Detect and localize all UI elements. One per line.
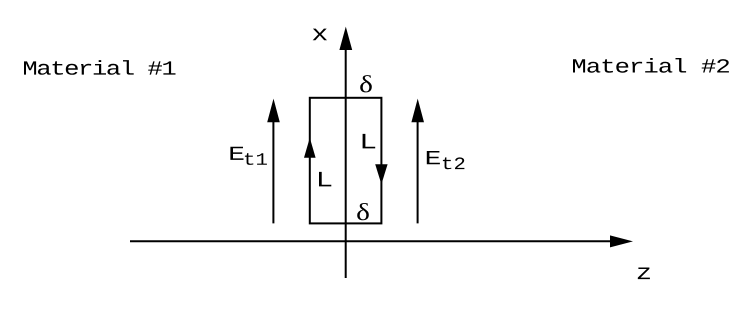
axis label z bbox=[638, 268, 650, 280]
z-axis line bbox=[130, 240, 614, 242]
label delta (bottom of loop) bbox=[357, 203, 369, 220]
field vector E_t1 arrowhead bbox=[267, 99, 280, 123]
x-axis line bbox=[345, 44, 347, 278]
label Material #2 bbox=[573, 58, 729, 73]
label E_t2 (E) bbox=[427, 151, 440, 164]
field vector E_t1 shaft bbox=[272, 118, 274, 223]
label E_t1 (E) bbox=[230, 147, 243, 160]
integration loop rectangle bbox=[310, 98, 382, 224]
loop direction arrowhead (up, on left edge) bbox=[304, 138, 316, 158]
z-axis arrowhead bbox=[610, 235, 633, 247]
field vector E_t2 shaft bbox=[417, 118, 419, 223]
x-axis arrowhead bbox=[339, 27, 352, 50]
label E_t2 (t2 subscript) bbox=[443, 157, 465, 169]
label L (right edge of loop) bbox=[363, 134, 376, 149]
field vector E_t2 arrowhead bbox=[411, 99, 424, 123]
label delta (top of loop) bbox=[360, 75, 372, 92]
label E_t1 (t1 subscript) bbox=[245, 153, 267, 165]
label Material #1 bbox=[24, 60, 176, 75]
label L (left edge of loop) bbox=[319, 172, 331, 187]
loop direction arrowhead (down, on right edge) bbox=[375, 164, 387, 184]
axis label x bbox=[313, 29, 327, 41]
